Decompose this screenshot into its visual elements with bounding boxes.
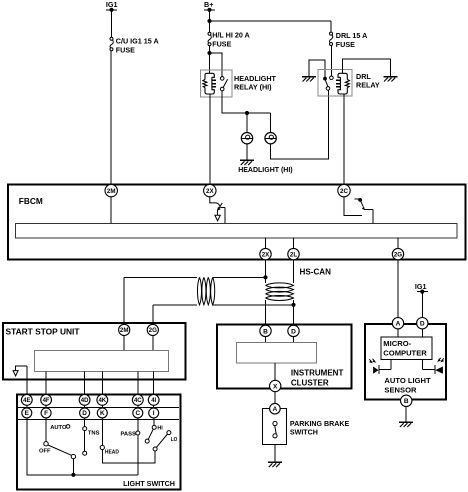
wire to pin 4D bbox=[84, 371, 86, 394]
bulb headlight left bbox=[241, 133, 252, 144]
svg-text:IG1: IG1 bbox=[106, 0, 118, 9]
wire to relay coil bbox=[209, 53, 211, 73]
wire braid to cluster B bbox=[265, 300, 267, 326]
wire DRL coil to FBCM 2C bbox=[343, 94, 345, 185]
connector row separator 2 bbox=[18, 419, 179, 421]
pin 4K (start stop unit side) bbox=[97, 395, 108, 406]
wire pin K to HEAD contact bbox=[101, 418, 103, 446]
junction below H/L fuse bbox=[207, 51, 211, 55]
wire 2M to bus bbox=[110, 196, 112, 223]
pin I (light switch side) bbox=[149, 408, 159, 418]
svg-text:E: E bbox=[25, 410, 30, 417]
svg-text:DRL 15 A: DRL 15 A bbox=[336, 31, 368, 40]
wire to pin 4E bbox=[26, 366, 28, 395]
relay contact switch (headlight relay) bbox=[220, 77, 227, 91]
svg-text:4I: 4I bbox=[151, 398, 156, 404]
wire D to microcomputer bbox=[421, 329, 423, 337]
label DRL 15 A FUSE bbox=[336, 31, 368, 49]
svg-text:SENSOR: SENSOR bbox=[384, 385, 417, 394]
svg-text:C: C bbox=[135, 410, 140, 417]
internal block (cluster) bbox=[237, 342, 317, 363]
parking brake contacts bbox=[273, 421, 277, 438]
junction at headlight feed bbox=[245, 111, 249, 115]
twisted pair to start stop unit bbox=[197, 277, 214, 305]
svg-text:TNS: TNS bbox=[88, 431, 100, 437]
pin K (light switch side) bbox=[97, 408, 107, 418]
wire to bulb 1 bbox=[246, 113, 248, 133]
wire B into block bbox=[265, 337, 267, 343]
wire IG1 to fuse bbox=[111, 10, 113, 38]
wire X to parking brake switch bbox=[274, 392, 276, 404]
pin F (light switch side) bbox=[41, 408, 51, 418]
svg-text:2M: 2M bbox=[107, 188, 116, 195]
wire A to microcomputer bbox=[397, 329, 399, 337]
wire CAN-H from 2X bbox=[265, 260, 267, 283]
ground under headlight bbox=[240, 160, 254, 165]
svg-text:IG1: IG1 bbox=[415, 282, 427, 291]
light arrows right bbox=[437, 358, 444, 363]
wire 2M into unit bbox=[123, 336, 125, 351]
wire bulb 1 to ground bbox=[246, 144, 248, 160]
wire relay switch feed to ground side bbox=[309, 60, 325, 77]
ground right of DRL relay bbox=[383, 77, 397, 82]
wire pin C through PASS contact to bus bbox=[137, 418, 139, 475]
svg-text:PASS: PASS bbox=[121, 432, 136, 438]
svg-text:2L: 2L bbox=[290, 251, 297, 258]
fuse H/L HI 20 A bbox=[208, 32, 211, 45]
wire B+ down bbox=[209, 10, 211, 21]
label AUTO + contact bbox=[50, 425, 70, 431]
pin 4F (start stop unit side) bbox=[41, 395, 52, 406]
wire bulb 2 to DRL relay switch bbox=[271, 90, 329, 159]
wire 2G into unit bbox=[152, 336, 154, 351]
module box START STOP UNIT bbox=[3, 323, 185, 380]
svg-text:HEAD: HEAD bbox=[105, 449, 119, 455]
junction B+ split bbox=[207, 19, 211, 23]
bulb headlight right bbox=[265, 133, 276, 144]
svg-text:FUSE: FUSE bbox=[116, 46, 135, 55]
wire to pin 4F bbox=[45, 371, 47, 394]
switch HEAD contact bbox=[100, 445, 104, 449]
relay box HEADLIGHT RELAY (HI) bbox=[201, 70, 232, 97]
pin 4C (start stop unit side) bbox=[132, 395, 143, 406]
switch TNS contact and lever bbox=[83, 427, 87, 456]
module box INSTRUMENT CLUSTER bbox=[217, 325, 352, 389]
svg-text:COMPUTER: COMPUTER bbox=[383, 349, 427, 358]
connector A (sensor) bbox=[392, 318, 403, 329]
svg-text:4F: 4F bbox=[43, 398, 50, 404]
block MICRO-COMPUTER bbox=[381, 337, 432, 360]
connector B (cluster) bbox=[260, 325, 271, 336]
label INSTRUMENT CLUSTER bbox=[291, 369, 344, 388]
label HEADLIGHT RELAY (HI) bbox=[234, 74, 277, 91]
wire B+ to DRL fuse down bbox=[330, 21, 332, 32]
switch symbol at 2C bbox=[344, 196, 373, 223]
svg-text:4K: 4K bbox=[98, 398, 106, 404]
light arrows left bbox=[369, 359, 376, 364]
svg-text:2C: 2C bbox=[340, 188, 348, 195]
driver symbol at 2X bbox=[210, 196, 225, 223]
wire to bulb 2 bbox=[270, 113, 272, 133]
wire to pin 4K bbox=[101, 371, 103, 394]
label C/U IG1 15 A FUSE bbox=[116, 37, 159, 55]
wire fuse to relay junction bbox=[209, 46, 211, 53]
wire CAN-L to start stop unit bbox=[153, 305, 294, 324]
junction CAN-L bbox=[291, 303, 295, 307]
svg-text:X: X bbox=[273, 383, 278, 390]
wire to pin 4I bbox=[153, 371, 155, 394]
connector 2G (FBCM bottom) bbox=[392, 238, 403, 260]
svg-text:B: B bbox=[404, 398, 409, 405]
svg-text:LIGHT SWITCH: LIGHT SWITCH bbox=[123, 479, 175, 488]
svg-text:FUSE: FUSE bbox=[336, 40, 355, 49]
svg-text:LO: LO bbox=[171, 437, 178, 443]
svg-text:B: B bbox=[263, 328, 268, 335]
svg-text:D: D bbox=[420, 321, 425, 328]
wire braid to cluster D bbox=[293, 300, 295, 326]
svg-text:K: K bbox=[100, 410, 105, 417]
switch box LIGHT SWITCH bbox=[17, 395, 180, 490]
svg-text:4E: 4E bbox=[23, 398, 30, 404]
wire DRL fuse to relay bbox=[330, 46, 332, 77]
label H/L HI 20 A FUSE bbox=[212, 30, 250, 48]
fuse DRL 15 A bbox=[329, 32, 332, 45]
switch lever OFF position bbox=[44, 442, 76, 459]
power tap IG1 (sensor) bbox=[415, 282, 428, 294]
label AUTO LIGHT SENSOR bbox=[384, 376, 431, 395]
svg-text:FUSE: FUSE bbox=[212, 39, 231, 48]
svg-text:HI: HI bbox=[157, 425, 163, 431]
svg-text:2G: 2G bbox=[394, 251, 402, 258]
internal ground arrow (start stop unit) bbox=[13, 366, 27, 376]
switch HI contact bbox=[152, 425, 156, 429]
svg-text:I: I bbox=[153, 410, 155, 417]
wire pin F to OFF contact bbox=[45, 418, 47, 442]
relay coil (headlight relay) bbox=[203, 73, 216, 94]
svg-text:D: D bbox=[291, 328, 296, 335]
twisted pair to instrument cluster bbox=[266, 283, 294, 301]
connector A (parking brake switch) bbox=[270, 403, 281, 414]
ground under auto light sensor bbox=[399, 422, 413, 427]
connector 2X (FBCM bottom) bbox=[260, 238, 271, 260]
internal block (start stop unit) bbox=[35, 350, 169, 371]
wire pivot to bus bbox=[72, 459, 74, 475]
connector 2G (start stop unit) bbox=[147, 324, 158, 335]
relay coil (DRL relay) bbox=[336, 73, 349, 94]
pin 4E (start stop unit side) bbox=[21, 395, 32, 406]
wire pin I to HI contact bbox=[153, 418, 155, 426]
svg-text:AUTO LIGHT: AUTO LIGHT bbox=[384, 376, 431, 385]
svg-text:A: A bbox=[273, 406, 278, 413]
connector 2C (FBCM top) bbox=[338, 184, 350, 196]
wire block to X bbox=[274, 363, 276, 380]
svg-text:D: D bbox=[82, 410, 87, 417]
svg-text:RELAY (HI): RELAY (HI) bbox=[234, 82, 272, 91]
wire B+ to DRL fuse bbox=[210, 20, 332, 22]
junction CAN-H bbox=[263, 275, 267, 279]
wire IG1 to sensor D bbox=[421, 292, 423, 318]
label PARKING BRAKE SWITCH bbox=[290, 420, 350, 436]
svg-text:INSTRUMENT: INSTRUMENT bbox=[291, 369, 344, 378]
svg-text:PARKING BRAKE: PARKING BRAKE bbox=[290, 420, 350, 428]
relay box DRL RELAY bbox=[318, 70, 352, 96]
svg-text:MICRO-: MICRO- bbox=[383, 339, 411, 348]
connector D (cluster) bbox=[288, 325, 299, 336]
svg-text:2G: 2G bbox=[149, 327, 157, 334]
wire pin D to TNS contact bbox=[84, 418, 86, 427]
svg-text:F: F bbox=[44, 410, 48, 417]
wire HEAD contact to LO pivot bbox=[102, 450, 155, 463]
wire relay coil to FBCM 2X bbox=[209, 94, 211, 185]
wire DRL coil to right ground bbox=[343, 59, 391, 77]
svg-text:OFF: OFF bbox=[39, 449, 51, 455]
photodiode left bbox=[373, 360, 391, 375]
pin D (light switch side) bbox=[80, 408, 90, 418]
pin 4I (start stop unit side) bbox=[148, 395, 159, 406]
svg-text:2X: 2X bbox=[262, 251, 270, 258]
svg-text:C/U IG1 15 A: C/U IG1 15 A bbox=[116, 37, 159, 46]
svg-text:HS-CAN: HS-CAN bbox=[300, 268, 332, 277]
label DRL RELAY bbox=[356, 72, 380, 89]
svg-text:2M: 2M bbox=[120, 327, 129, 334]
wire relay switch to bulbs bbox=[222, 91, 270, 113]
module box FBCM bbox=[8, 185, 466, 260]
wire to relay switch bbox=[210, 53, 223, 77]
label MICRO-COMPUTER bbox=[383, 339, 427, 358]
wire CAN-L from 2L bbox=[293, 260, 295, 283]
power tap IG1 (top left) bbox=[106, 0, 118, 12]
wire sensor B to ground bbox=[405, 407, 407, 422]
junction on common bus bbox=[71, 473, 75, 477]
ground under parking brake switch bbox=[268, 462, 282, 467]
svg-text:HEADLIGHT (HI): HEADLIGHT (HI) bbox=[238, 167, 292, 174]
svg-text:4D: 4D bbox=[81, 398, 89, 404]
svg-text:2X: 2X bbox=[206, 188, 214, 195]
pin stubs between rows bbox=[27, 405, 154, 408]
module box AUTO LIGHT SENSOR bbox=[365, 324, 446, 399]
svg-text:A: A bbox=[396, 321, 401, 328]
wire fuse to FBCM 2M bbox=[110, 51, 112, 185]
internal bus bar (FBCM) bbox=[16, 224, 458, 238]
connector 2L (FBCM bottom) bbox=[288, 238, 299, 260]
connector X (cluster bottom) bbox=[270, 380, 281, 391]
wire to pin 4C bbox=[137, 371, 139, 394]
switch PASS contact bbox=[136, 431, 140, 435]
wire pin E to common bus bbox=[27, 418, 138, 475]
wire CAN-H to start stop unit bbox=[124, 277, 265, 324]
wire FBCM 2G to sensor A bbox=[397, 260, 399, 318]
switch box parking brake bbox=[263, 409, 287, 445]
svg-text:AUTO: AUTO bbox=[50, 425, 67, 431]
svg-text:SWITCH: SWITCH bbox=[290, 428, 318, 436]
switch LO lever bbox=[153, 431, 171, 451]
relay contact switch (DRL relay) bbox=[323, 76, 333, 90]
pin E (light switch side) bbox=[22, 408, 32, 418]
svg-text:START STOP UNIT: START STOP UNIT bbox=[6, 326, 81, 336]
fuse C/U IG1 15 A bbox=[110, 37, 113, 50]
connector D (sensor) bbox=[417, 318, 428, 329]
connector 2M (start stop unit) bbox=[119, 324, 130, 335]
power tap B+ (top center) bbox=[204, 0, 215, 12]
svg-text:FBCM: FBCM bbox=[19, 196, 43, 206]
connector 2X (FBCM top) bbox=[204, 184, 216, 196]
ground left of DRL relay bbox=[302, 77, 316, 82]
pin 4D (start stop unit side) bbox=[79, 395, 90, 406]
svg-text:B+: B+ bbox=[204, 0, 213, 9]
photodiode right bbox=[422, 360, 443, 375]
connector row separator 1 bbox=[18, 406, 179, 408]
connector 2M (FBCM) bbox=[105, 184, 117, 196]
svg-text:4C: 4C bbox=[134, 398, 142, 404]
svg-text:CLUSTER: CLUSTER bbox=[291, 379, 329, 388]
pin C (light switch side) bbox=[133, 408, 143, 418]
wire B+ to H/L fuse bbox=[209, 21, 211, 32]
wire D into block bbox=[293, 337, 295, 343]
svg-text:H/L HI 20 A: H/L HI 20 A bbox=[212, 30, 250, 39]
svg-text:RELAY: RELAY bbox=[356, 80, 380, 89]
switch HI lever bbox=[145, 429, 153, 443]
wire parking brake to ground bbox=[274, 444, 276, 462]
connector B (sensor bottom) bbox=[401, 395, 412, 406]
